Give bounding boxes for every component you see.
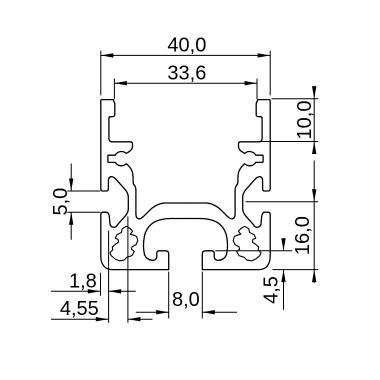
dimension 4,5 extension line <box>216 250 293 252</box>
dimension 40,0 extension lines <box>101 51 270 96</box>
arrowheads 8,0 <box>156 310 169 314</box>
arrowheads 10,0 <box>312 86 316 99</box>
svg-text:16,0: 16,0 <box>292 216 314 255</box>
dimension 10,0 / 16,0 vertical line <box>313 86 315 283</box>
svg-text:4,55: 4,55 <box>60 298 99 320</box>
dimension 1,8 extension line <box>100 273 102 296</box>
dimension 4,55 extension line <box>127 217 129 323</box>
profile outline left half <box>101 100 186 270</box>
serrated screw channel <box>110 226 138 260</box>
dimension 10,0 extension lines <box>258 99 318 142</box>
dimension 4,5 line <box>283 239 285 310</box>
svg-text:33,6: 33,6 <box>167 62 206 84</box>
svg-text:10,0: 10,0 <box>294 101 316 140</box>
extension line shared 1,8 / 4,55 <box>108 231 110 323</box>
dimension 5,0 extension lines <box>67 191 100 212</box>
dimension 1,8 line <box>51 290 136 292</box>
svg-text:1,8: 1,8 <box>69 271 97 293</box>
dimension 8,0 extension lines <box>169 272 203 319</box>
dimension 33,6 line <box>114 82 257 84</box>
profile right half (mirror) <box>186 100 271 270</box>
arrowheads 4,5 <box>281 238 285 251</box>
svg-text:4,5: 4,5 <box>261 276 283 304</box>
arrowheads 5,0 <box>69 179 73 192</box>
arrowheads 33,6 <box>114 81 127 85</box>
svg-text:5,0: 5,0 <box>50 188 72 216</box>
svg-text:8,0: 8,0 <box>172 289 200 311</box>
dimension 40,0 line <box>101 54 270 56</box>
svg-text:40,0: 40,0 <box>167 35 206 57</box>
dimension 4,55 line <box>51 318 153 320</box>
arrowheads 40,0 <box>101 53 114 57</box>
dimension 16,0 extension lines <box>246 202 319 270</box>
dimension 5,0 line <box>70 164 72 240</box>
profile cross-section (left half, mirrored for right) <box>101 100 186 270</box>
dimension 33,6 extension lines <box>114 79 257 100</box>
arrowheads 1,8 <box>88 289 101 293</box>
arrowheads 4,55 <box>96 317 109 321</box>
dimension 8,0 line <box>136 311 237 313</box>
arrowheads 16,0 <box>312 189 316 202</box>
